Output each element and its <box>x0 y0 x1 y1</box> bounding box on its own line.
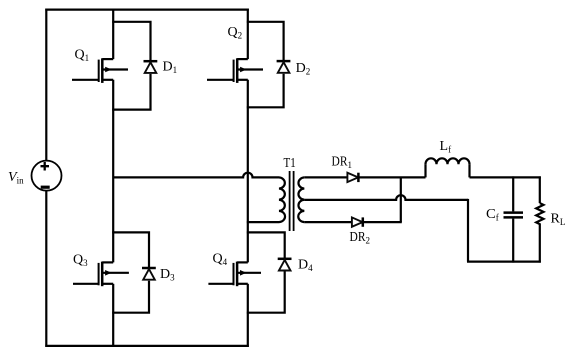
wire right leg Q2 source to Q4 drain <box>247 80 249 263</box>
wire DR1 cathode to Lf <box>359 176 425 178</box>
wire Vin top leg <box>45 9 47 161</box>
inductor Lf <box>426 158 470 177</box>
wire output bottom rail <box>467 261 541 263</box>
wire mid rail with crossover hump <box>113 173 279 178</box>
wire center tap down leg <box>467 199 469 262</box>
wire D2 branch bottom <box>247 74 284 108</box>
svg-text:T1: T1 <box>284 156 296 171</box>
wire center tap with crossover hump <box>304 195 468 200</box>
diode DR2 <box>352 217 363 226</box>
capacitor Cf <box>504 176 524 262</box>
transformer T1 secondary winding <box>298 177 304 222</box>
resistor RL <box>536 176 543 262</box>
wire secondary bottom to DR2 <box>304 221 351 223</box>
wire DR2 cathode to junction <box>364 221 402 223</box>
wire D1 branch bottom <box>112 74 150 110</box>
diode D2 <box>277 61 291 73</box>
wire secondary top to DR1 <box>304 176 347 178</box>
transistor Q1 <box>72 58 128 83</box>
wire Lf to output top <box>470 176 541 178</box>
transistor Q3 <box>73 262 129 287</box>
wire D4 branch top <box>247 232 285 258</box>
wire rectifier junction vertical <box>400 177 402 222</box>
transistor Q4 <box>208 262 261 287</box>
wire Vin bottom leg <box>45 190 47 347</box>
wire D2 branch top <box>247 22 284 62</box>
wire left leg Q1 source to Q3 drain <box>112 80 114 263</box>
wire D1 branch top <box>112 22 150 62</box>
wire primary bottom to right leg <box>247 221 279 223</box>
wire Q2 drain leg <box>247 9 249 60</box>
wire bottom rail <box>45 345 249 347</box>
wire Q1 drain leg <box>112 9 114 60</box>
voltage source Vin <box>32 161 62 191</box>
wire Q4 source leg <box>247 284 249 347</box>
diode D1 <box>144 61 158 73</box>
wire D3 branch bottom <box>112 281 149 313</box>
wire Q3 source leg <box>112 284 114 347</box>
wire D4 branch bottom <box>247 272 285 313</box>
transformer T1 core <box>290 171 294 231</box>
wire top rail <box>45 9 249 11</box>
wire D3 branch top <box>112 232 149 267</box>
transformer T1 primary winding <box>279 177 285 222</box>
diode D3 <box>142 268 156 280</box>
diode DR1 <box>347 173 358 182</box>
transistor Q2 <box>207 58 263 83</box>
diode D4 <box>278 259 292 271</box>
